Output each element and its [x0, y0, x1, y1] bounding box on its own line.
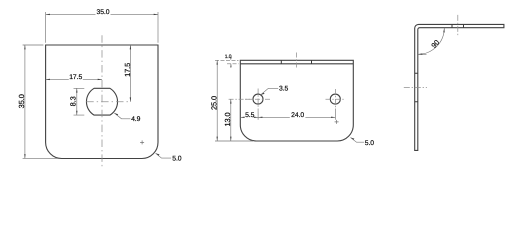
arrows 5.5	[240, 117, 258, 118]
left hole centerlines	[245, 98, 271, 100]
centerline on horizontal leg	[457, 15, 459, 37]
svg-text:35.0: 35.0	[97, 9, 110, 16]
dim 8.3 (hole height) extension lines	[74, 88, 85, 115]
right hole centerlines	[326, 98, 345, 100]
dim 1.0 (thickness)	[227, 63, 239, 65]
dim 35.0 top : extension lines	[46, 12, 158, 43]
bent edge centerline	[295, 53, 297, 69]
dim 35.0 top : dimension line	[46, 13, 158, 15]
svg-text:13.0: 13.0	[223, 112, 232, 126]
plate outline (left view)	[46, 45, 158, 159]
leader 4.9 (hole radius)	[114, 113, 130, 119]
dim 17.5 vertical (top edge to hole center)	[129, 45, 131, 102]
dim 35.0 left : extension lines	[23, 45, 58, 158]
svg-text:5.0: 5.0	[172, 156, 182, 163]
svg-text:4.9: 4.9	[131, 116, 141, 123]
svg-text:35.0: 35.0	[17, 94, 26, 108]
svg-text:17.5: 17.5	[123, 63, 132, 77]
flange outline	[240, 60, 353, 141]
leader 5.0 (corner radius, middle view)	[351, 138, 365, 143]
svg-text:5.5: 5.5	[245, 112, 255, 119]
dim 13.0 dimension line	[230, 99, 232, 141]
hole (circle with top/bottom flats)	[86, 88, 117, 115]
extension: hole centerlines down to dim line	[258, 109, 335, 120]
hole edge ticks on horizontal leg	[452, 24, 464, 27]
dim 8.3 dimension line	[76, 88, 78, 115]
hole vertical centerline	[101, 35, 103, 168]
dim 25.0 dimension line	[216, 60, 218, 141]
dim 35.0 left : dimension line	[24, 45, 26, 158]
svg-text:25.0: 25.0	[210, 96, 219, 110]
arrows 24.0	[258, 117, 335, 118]
svg-text:17.5: 17.5	[69, 74, 82, 81]
svg-text:24.0: 24.0	[291, 112, 304, 119]
left hole (d3.5)	[253, 94, 263, 104]
dim 17.5 horizontal (left edge to hole center)	[46, 78, 102, 80]
hole horizontal centerline	[86, 101, 129, 103]
big-hole edge ticks on bent edge	[281, 60, 311, 64]
svg-text:1.0: 1.0	[225, 54, 232, 60]
svg-text:8.3: 8.3	[69, 96, 78, 106]
centerline on vertical leg	[404, 87, 427, 89]
profile outline	[415, 24, 504, 150]
right hole (d3.5)	[330, 94, 340, 104]
corner radius center mark	[140, 140, 144, 144]
corner radius center mark (middle view)	[335, 120, 339, 124]
dim 13.0 : top extension (hole centerline to dim line)	[229, 98, 252, 100]
leader 3.5 (hole dia)	[261, 88, 279, 95]
bent-edge second line (material thickness)	[240, 63, 353, 65]
svg-text:5.0: 5.0	[365, 140, 375, 147]
90 deg dimension arc	[418, 28, 444, 54]
leader 5.0 (corner radius, left view)	[156, 153, 172, 158]
dim 5.5 / 24.0 shared dimension line	[240, 116, 335, 118]
dim 25.0 : extension lines	[215, 59, 239, 61]
hole edge ticks on vertical leg	[415, 73, 418, 101]
svg-text:3.5: 3.5	[279, 86, 289, 93]
